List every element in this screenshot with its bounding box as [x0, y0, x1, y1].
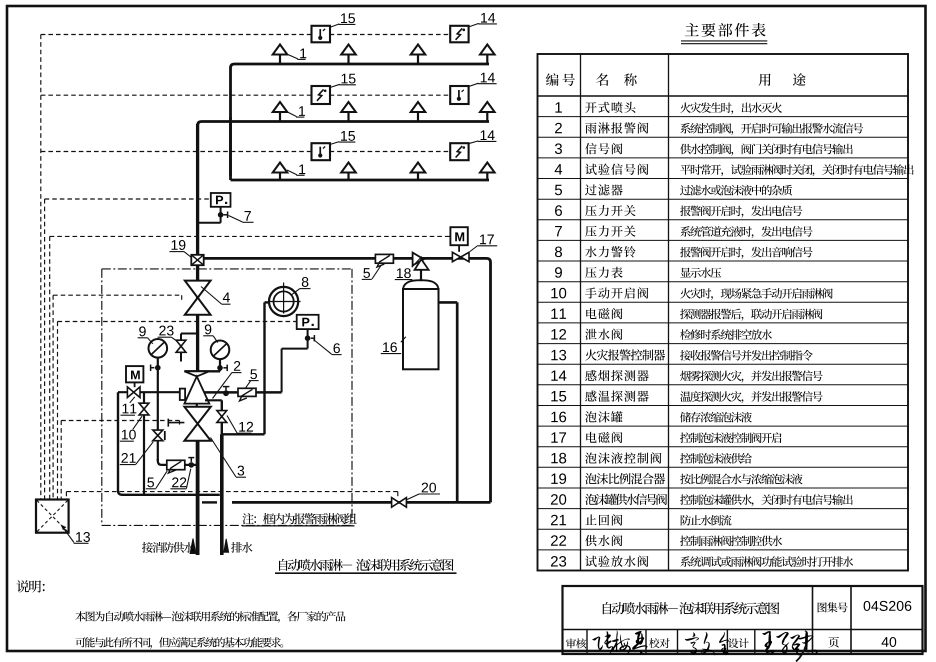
deluge valve 2 outlet stub — [196, 404, 198, 407]
pipe branch 3 — [231, 179, 490, 182]
check valve 21 — [153, 430, 165, 441]
pipe foam water supply line — [232, 501, 491, 504]
label 4 — [201, 287, 231, 305]
dash-dot frame top — [102, 268, 352, 270]
pressure switch P7 letter — [216, 196, 227, 205]
open sprinkler 1 branch2 head2 — [341, 102, 356, 122]
dashed signal line to solenoid valve 17 — [50, 235, 451, 237]
detector 14 branch3 icon — [456, 146, 466, 157]
table title — [681, 23, 767, 44]
open sprinkler 1 branch1 head2 — [341, 45, 356, 65]
main drain cross link lower — [202, 501, 217, 503]
label 1 branch3 — [287, 164, 305, 175]
label 6 — [314, 340, 342, 355]
label 15 branch1 — [330, 13, 356, 27]
signal valve 3 handle — [168, 419, 184, 427]
heat/smoke detector 15 branch3 box — [312, 143, 331, 160]
dashed signal line to signal valve 3 — [61, 421, 179, 425]
solenoid valve 11 — [127, 387, 140, 398]
title block shenhe — [566, 638, 586, 648]
open sprinkler 1 branch3 head4 — [480, 163, 495, 181]
open sprinkler 1 branch2 head4 — [480, 102, 495, 122]
dashed signal line detectors row 3 — [41, 151, 451, 153]
fire alarm control panel 13 — [36, 500, 69, 533]
filter 5 on supply trim — [167, 460, 185, 473]
label 5 foam filter — [362, 266, 381, 280]
dashed signal line to pressure switch 6 — [58, 321, 297, 323]
solenoid M11 letter — [131, 371, 140, 380]
detector 15 branch3 icon — [318, 147, 325, 158]
dashed signal line to tank supply signal valve 20 — [66, 492, 397, 498]
label 5 alarm filter — [246, 369, 259, 387]
fire water supply riser — [196, 441, 200, 555]
pipe branch 1 — [231, 64, 490, 176]
label 11 — [121, 397, 137, 415]
deluge alarm valve 2 left port — [180, 389, 185, 400]
drain pipe main — [220, 434, 224, 555]
pressure switch P6 connection — [282, 349, 308, 393]
dashed signal bus vertical 1 — [40, 35, 42, 500]
table row lines — [538, 117, 909, 550]
detector 15 branch1 icon — [318, 29, 325, 40]
gauge 9 left stem — [151, 358, 161, 393]
note paragraph line2 — [75, 637, 283, 649]
label 22 — [170, 469, 190, 489]
table frame — [538, 54, 909, 571]
open sprinkler 1 branch3 head2 — [341, 163, 356, 181]
solenoid M17 letter — [455, 232, 464, 241]
table header bianhao — [546, 73, 575, 86]
note text — [242, 513, 357, 526]
signal valve 3 — [184, 407, 210, 441]
alarm line cock — [223, 387, 230, 397]
dashed signal bus vertical 3 — [49, 236, 51, 499]
trim left vertical — [118, 392, 199, 495]
signature shenhe — [592, 631, 647, 655]
filter 5 on foam line — [375, 254, 393, 267]
smoke/heat detector 14 branch1 box — [450, 26, 468, 43]
label 15 branch3 — [330, 131, 356, 145]
supply valve 22 line — [185, 464, 198, 466]
gauge 9 right stem — [217, 359, 227, 371]
label 2 — [213, 361, 242, 399]
detector 14 branch1 icon — [456, 28, 466, 39]
open sprinkler 1 branch1 head4 — [480, 45, 495, 65]
label 10 — [120, 416, 142, 441]
label 8 — [292, 277, 311, 295]
table column line 2 — [668, 54, 670, 571]
gong drain link — [222, 433, 265, 435]
text paishui — [231, 542, 252, 553]
dash-dot frame left — [101, 269, 103, 526]
diagram title — [275, 559, 457, 573]
dashed signal bus vertical 5 — [57, 322, 59, 500]
open sprinkler 1 branch1 head1 — [273, 45, 288, 65]
label 15 branch2 — [330, 74, 356, 88]
smoke/heat detector 14 branch2 box — [450, 86, 468, 104]
label 9 left — [138, 326, 153, 343]
supply valve 22 — [188, 458, 194, 468]
dashed signal bus vertical 4 — [52, 295, 54, 499]
label 18 — [395, 257, 422, 280]
table column line 1 — [580, 54, 582, 571]
title block bottom row dividers — [587, 630, 755, 655]
manual valve 10 drop — [143, 392, 145, 495]
pipe cross main branch1-branch3 — [229, 117, 232, 180]
label 14 branch3 — [468, 130, 496, 143]
heat/smoke detector 15 branch1 box — [312, 26, 331, 43]
solenoid M11 box — [126, 366, 143, 382]
signature jiaodui — [685, 632, 729, 655]
test signal valve 4 — [185, 281, 211, 315]
pressure switch P7 stem — [218, 207, 228, 223]
note paragraph line1 — [75, 611, 345, 623]
label 12 — [227, 416, 253, 434]
pressure switch P6 stem — [305, 329, 315, 349]
drain valve 12 — [217, 411, 227, 423]
dashed signal line detectors row 1 — [41, 34, 451, 36]
pipe tank inlet vertical — [456, 302, 459, 502]
label 17 — [470, 235, 497, 252]
solenoid M17 box — [450, 227, 467, 245]
label 1 branch1 — [286, 49, 307, 60]
water motor alarm gong 8 — [269, 283, 301, 317]
drain flow arrow — [224, 539, 229, 552]
title block 04S206 — [864, 601, 912, 611]
title block jiaodui — [649, 638, 670, 648]
label 1 branch2 — [287, 106, 305, 117]
title block sheji — [728, 638, 749, 648]
detector 15 branch2 icon — [317, 89, 327, 100]
dashed signal bus vertical 2 — [44, 199, 46, 500]
test drain valve 23 tap — [181, 334, 198, 362]
dashed signal line to pressure switch 7 — [45, 198, 211, 200]
title block ye — [828, 637, 839, 648]
foam tank 16 dome — [403, 280, 439, 289]
smoke/heat detector 14 branch3 box — [450, 143, 468, 160]
gong feed pipe — [265, 302, 270, 434]
trim corner to filter — [158, 459, 167, 465]
manual release valve 10 — [139, 403, 149, 415]
pipe main riser — [196, 124, 199, 371]
check valve 21 drop — [157, 392, 159, 461]
tank supply signal valve 20 — [392, 498, 407, 508]
foam proportioner 19 — [191, 255, 203, 265]
label 21 — [120, 442, 153, 465]
pressure switch P6 letter — [302, 318, 313, 327]
trim line to valve2 left port — [118, 391, 180, 393]
main drain cross link upper — [199, 494, 220, 496]
table header yongtu — [759, 73, 806, 86]
table body text — [551, 102, 914, 567]
open sprinkler 1 branch2 head3 — [411, 102, 426, 122]
foam concentrate valve 18 — [413, 253, 429, 270]
deluge alarm valve 2 upper seat — [184, 371, 209, 376]
label 5 trim filter — [146, 471, 167, 489]
dashed signal line detectors row 2 — [41, 94, 451, 96]
label 3 — [211, 438, 247, 478]
open sprinkler 1 branch3 head1 — [273, 163, 288, 181]
open sprinkler 1 branch2 head1 — [273, 102, 288, 122]
pipe main line to foam system — [198, 258, 491, 502]
dash-dot frame bottom — [102, 524, 352, 526]
shuoming heading — [17, 580, 45, 592]
drain tap from riser — [205, 399, 222, 401]
detector 14 branch2 icon — [457, 90, 464, 101]
label 14 branch2 — [468, 73, 496, 87]
foam tank 16 body — [403, 289, 439, 369]
label 19 — [170, 240, 192, 258]
label 7 — [229, 211, 254, 222]
pipe valve2 inlet top line — [184, 370, 220, 372]
solenoid valve 17 — [452, 252, 469, 261]
drain pipe upper — [221, 400, 223, 434]
pressure gauge 9 left — [149, 339, 168, 358]
label 9 right — [203, 324, 218, 342]
pressure switch P6 box — [297, 315, 319, 329]
pressure switch P7 box — [211, 193, 231, 207]
title block mid line — [563, 629, 923, 631]
alarm line — [204, 391, 282, 394]
title block v1 — [812, 586, 814, 654]
title block v2 — [850, 586, 852, 654]
text jie-xiaofang-gongshui — [142, 542, 194, 553]
solenoid M17 stem — [458, 245, 460, 252]
label 16 — [381, 337, 406, 354]
filter 5 on alarm line — [238, 388, 256, 401]
label 20 — [407, 483, 440, 500]
valve 18 stub to tank — [420, 270, 422, 281]
table header mingcheng — [596, 73, 637, 86]
label 13 — [61, 525, 90, 543]
pipe branch 2 — [198, 122, 489, 126]
title block tujihao — [818, 602, 848, 612]
test drain valve 23 — [176, 340, 186, 352]
title block drawing name — [603, 602, 780, 614]
dash-dot frame right — [351, 269, 353, 526]
title block frame — [563, 586, 923, 654]
heat/smoke detector 15 branch2 box — [312, 86, 331, 104]
table header line — [538, 95, 909, 97]
open sprinkler 1 branch1 head3 — [411, 45, 426, 65]
signature sheji — [762, 631, 817, 662]
label 23 — [158, 326, 178, 342]
title block 40 — [882, 637, 897, 647]
solenoid M11 stem — [134, 382, 136, 387]
open sprinkler 1 branch3 head3 — [411, 163, 426, 181]
dashed signal bus vertical 6 — [60, 421, 62, 500]
pressure switch P7 elbow to riser — [198, 222, 221, 224]
pipe tank inlet top — [439, 301, 458, 304]
supply flow arrow — [190, 539, 196, 554]
dashed signal bus vertical 7 — [65, 492, 67, 500]
pressure gauge 9 right — [211, 341, 230, 360]
deluge alarm valve 2 body — [184, 376, 209, 403]
label 14 branch1 — [468, 13, 497, 27]
dashed signal line to test signal valve 4 — [53, 295, 182, 301]
